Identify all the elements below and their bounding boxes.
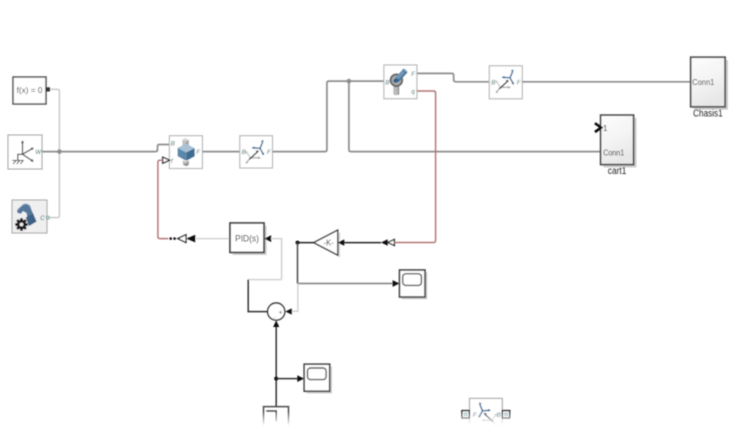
wire sum output to PID input (light) (248, 239, 281, 312)
wire RT2 F to Chasis1 (522, 81, 690, 83)
cube (178, 144, 195, 153)
svg-text:B: B (171, 141, 175, 148)
actuation input triangle at f port (163, 157, 170, 163)
disc (391, 74, 403, 86)
svg-text:1: 1 (603, 123, 608, 133)
column bottom (183, 160, 186, 166)
prismatic joint block (169, 136, 202, 169)
world frame block (8, 135, 42, 169)
svg-text:+: + (279, 309, 283, 316)
svg-text:C: C (40, 215, 45, 222)
junction node left (57, 149, 62, 154)
svg-text:q: q (411, 88, 415, 95)
svg-text:B: B (385, 80, 389, 87)
gray handle (393, 82, 399, 95)
step block (partially faded) (264, 407, 289, 428)
wire converter to PID output (196, 238, 230, 240)
wire prismatic F to RT1 B (202, 151, 239, 153)
svg-text:B: B (491, 80, 495, 87)
wire RT1 F up to junction (273, 81, 349, 152)
wire junction down to cart1 Conn1 (349, 81, 601, 152)
rigid transform RT1 (240, 136, 273, 168)
bottom fade overlay (0, 412, 750, 428)
gear (15, 218, 28, 231)
svg-text:B: B (242, 149, 246, 156)
solver configuration block f(x)=0 (13, 77, 50, 104)
column top (182, 138, 188, 141)
wire world frame to prismatic B (42, 145, 169, 152)
junction node top (347, 79, 352, 84)
rigid transform RT2 (489, 66, 522, 99)
wire solver/mech-config vertical (49, 89, 60, 217)
blue cylinder rotated (394, 68, 408, 82)
svg-text:cart1: cart1 (608, 166, 627, 177)
gain output junction (296, 241, 314, 245)
wire junction down to sum right input (light) (285, 284, 298, 315)
sum bottom input wire from step (273, 320, 279, 406)
red actuation wire from f port down to converter (158, 160, 168, 238)
red sensing wire from revolute q (394, 91, 435, 243)
scope2 (304, 364, 332, 393)
svg-text:Conn1: Conn1 (692, 77, 714, 87)
mechanism configuration block (12, 200, 49, 233)
PID controller block (230, 223, 271, 255)
subsystem Chasis1 (691, 57, 728, 119)
svg-text:-K-: -K- (324, 238, 334, 248)
sum block (268, 303, 285, 322)
wire q-sense to gain input (344, 239, 394, 245)
right port connector (502, 411, 509, 418)
svg-text:Conn1: Conn1 (603, 148, 624, 158)
subsystem cart1 (595, 115, 637, 177)
wire revolute F to RT2 B (417, 73, 489, 81)
wire junction down and to scope1 (298, 243, 400, 287)
revolute joint block (384, 65, 417, 99)
robot arm (17, 204, 36, 226)
wire junction to revolute B (349, 80, 384, 82)
svg-text:−: − (273, 315, 277, 322)
rigid transform RT3 (unconnected, flipped) (462, 398, 510, 428)
converter marks left of PID (169, 235, 195, 243)
svg-text:f(x) = 0: f(x) = 0 (17, 86, 43, 95)
svg-text:PID(s): PID(s) (235, 233, 259, 243)
scope1 (400, 270, 428, 299)
left port connector (462, 411, 469, 418)
svg-text:Chasis1: Chasis1 (693, 108, 723, 119)
gain block -K- (314, 230, 345, 257)
wire junction to scope2 (276, 375, 304, 382)
